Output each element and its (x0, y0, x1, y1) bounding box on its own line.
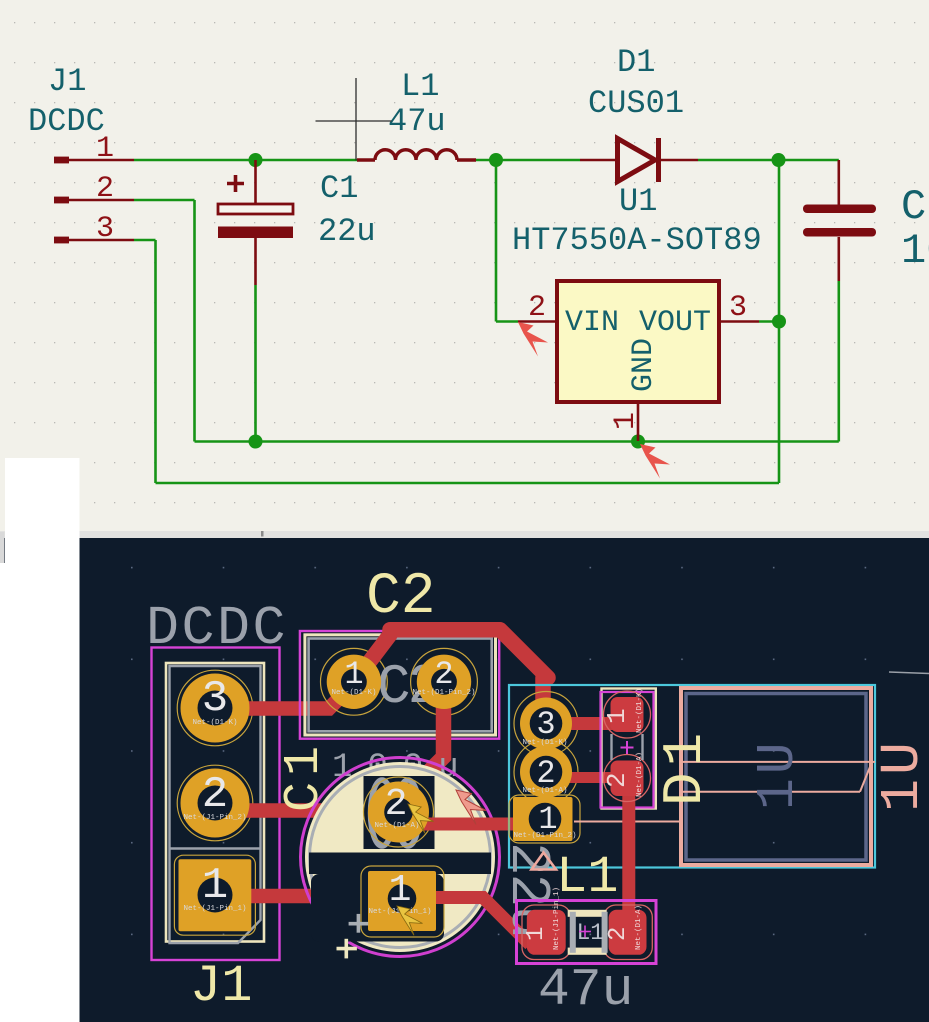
inductor L1 (357, 150, 476, 160)
svg-text:VOUT: VOUT (639, 306, 711, 340)
svg-text:C2: C2 (366, 565, 436, 630)
svg-text:HT7550A-SOT89: HT7550A-SOT89 (512, 222, 762, 259)
svg-text:2: 2 (96, 172, 114, 206)
C2 pad 1 (327, 655, 381, 709)
U1 pin 3 VOUT (720, 291, 759, 325)
U1 body silkscreen rectangle (681, 688, 871, 865)
U1 pad 2 (520, 746, 572, 798)
svg-text:1: 1 (523, 927, 550, 941)
J1 pad 1 (179, 859, 252, 931)
D1 fab polarity marks (612, 734, 643, 760)
svg-text:Net-(D1-A): Net-(D1-A) (522, 787, 567, 795)
junction node at VIN (489, 153, 503, 167)
svg-text:3: 3 (729, 291, 747, 325)
U1 pad clearance outlines (509, 692, 580, 844)
C2 pad clearance circles (321, 648, 478, 715)
svg-text:U1: U1 (619, 183, 657, 220)
U1 pad 1 (513, 797, 577, 841)
C1 silkscreen plus mark (337, 939, 357, 959)
svg-text:47u: 47u (388, 103, 446, 140)
svg-text:D1: D1 (617, 44, 655, 81)
C1 fab plus mark (349, 914, 369, 933)
wire J1 pin3 to VOUT return rail (134, 160, 779, 483)
capacitor C1 (polarized) (218, 160, 293, 285)
svg-text:DCDC: DCDC (28, 103, 105, 140)
footprint C1 fab circle fill (305, 762, 495, 952)
C1 pad clearance outlines (361, 777, 444, 937)
svg-text:1: 1 (202, 861, 228, 911)
svg-text:2: 2 (602, 772, 632, 788)
svg-text:2: 2 (385, 783, 408, 826)
footprint D1 courtyard (601, 692, 654, 808)
D1 pad clearance circles (604, 691, 651, 802)
schematic background (0, 0, 929, 532)
DRC marker arrow at U1 GND junction (640, 444, 670, 479)
D1 pad 1 (602, 688, 644, 733)
trace J1.1 to C1.1 (248, 889, 390, 904)
wire net VIN top rail (134, 160, 839, 322)
DRC marker arrow at U1 pin 2 (518, 322, 548, 357)
trace C2.2 to C1.2 (400, 682, 444, 801)
svg-text:Net-(J1-Pin_1): Net-(J1-Pin_1) (183, 905, 246, 913)
connector J1 pin 2 (54, 197, 134, 204)
L1 body fab drawing (568, 910, 608, 955)
window divider strip (0, 531, 929, 539)
C1 pad 1 (368, 869, 436, 931)
C2 pad 2 (412, 655, 475, 709)
ratsnest stub line (889, 672, 929, 674)
svg-text:2: 2 (202, 770, 228, 820)
svg-text:DCDC: DCDC (146, 597, 288, 660)
svg-text:10: 10 (901, 227, 929, 275)
svg-text:C2: C2 (901, 183, 929, 231)
junction node at C1 bottom (249, 435, 263, 449)
svg-text:Net-(J1-Pin_1): Net-(J1-Pin_1) (553, 887, 561, 950)
svg-text:1: 1 (602, 708, 632, 724)
footprint C2 fab outline (305, 635, 496, 735)
footprint U1 courtyard (509, 685, 875, 868)
D1 pad 2 (602, 752, 644, 797)
svg-text:Net-(D1-K): Net-(D1-K) (636, 688, 644, 733)
J1 pad clearance circles (174, 670, 255, 935)
footprint J1 silk outline with pin1 chamfer (170, 666, 261, 943)
svg-text:Net-(D1-A): Net-(D1-A) (374, 822, 419, 830)
svg-text:Net-(D1-A): Net-(D1-A) (635, 905, 643, 950)
footprint J1 courtyard (152, 648, 280, 961)
svg-text:L1: L1 (577, 920, 605, 946)
svg-text:Net-(D1-K): Net-(D1-K) (522, 739, 567, 747)
svg-text:22u: 22u (318, 213, 376, 250)
J1 pad 2 (181, 769, 250, 838)
svg-text:J1: J1 (190, 957, 252, 1016)
svg-text:Net-(J1-Pin_2): Net-(J1-Pin_2) (183, 814, 246, 822)
svg-text:1: 1 (389, 869, 412, 912)
connector J1 pin 3 (54, 237, 134, 244)
footprint C1 courtyard circle (301, 758, 500, 957)
svg-text:L1: L1 (556, 848, 618, 907)
capacitor C2 (803, 160, 876, 281)
C1 pad2 keepout window (364, 776, 435, 849)
trace J1.2 to C1.2 (246, 803, 380, 818)
svg-text:VIN: VIN (565, 306, 619, 340)
svg-text:3: 3 (96, 212, 114, 246)
svg-text:1U: 1U (871, 738, 929, 812)
footprint C2 silk outline (309, 639, 492, 732)
svg-text:GND: GND (627, 338, 661, 392)
footprint L1 courtyard (517, 901, 657, 964)
svg-text:2: 2 (605, 927, 632, 941)
wire GND bottom rail (195, 281, 839, 442)
cursor arrow at C1 pad1 (yellow) (397, 906, 423, 935)
L1 pad 2 (605, 905, 647, 955)
L1 pad clearance outlines (522, 905, 652, 960)
svg-text:1U: 1U (748, 738, 808, 810)
svg-text:3: 3 (202, 674, 228, 724)
cursor arrow at C1 pad2 (yellow) (408, 804, 434, 833)
footprint D1 fab outline (602, 689, 656, 809)
trace J1.3 to C2.1 (246, 683, 354, 709)
C1 pad 2 (368, 782, 429, 843)
DRC arrow near C1 pad2 (pink) (456, 790, 486, 825)
svg-text:3: 3 (536, 706, 555, 743)
svg-text:2: 2 (434, 656, 453, 693)
PCB background (0, 538, 929, 1022)
svg-text:Net-(D1-K): Net-(D1-K) (331, 689, 376, 697)
svg-text:Net-(D1-K): Net-(D1-K) (192, 719, 237, 727)
trace U1.2 to D1.2 (560, 772, 620, 783)
U1 pin 2 VIN (518, 291, 557, 325)
U1 body fab rectangle (686, 694, 866, 861)
svg-text:Net-(D1-Pin_2): Net-(D1-Pin_2) (412, 689, 475, 697)
svg-text:1: 1 (609, 412, 643, 430)
svg-text:1: 1 (344, 656, 363, 693)
cursor crosshair (316, 78, 392, 161)
junction node at diode cathode (772, 153, 786, 167)
regulator U1 body (557, 281, 719, 402)
trace D1.2 to L1.2 (622, 790, 635, 915)
C1 hidden fab glyph fragments (371, 780, 420, 846)
svg-text:Net-(D1-Pin_2): Net-(D1-Pin_2) (513, 832, 576, 840)
trace C1.1 to L1.1 (420, 898, 530, 945)
J1 pad 3 (181, 674, 250, 743)
L1 pad 1 (523, 887, 566, 955)
junction node at VOUT pin (772, 315, 786, 329)
svg-text:1: 1 (96, 132, 114, 166)
junction node at U1 GND (631, 435, 645, 449)
U1 pad 3 (520, 698, 572, 750)
trace C2.1 to U1.3 (354, 630, 548, 712)
white side panel (0, 458, 80, 1022)
C1 center band window (309, 853, 491, 875)
C1 pad1 keepout window (311, 874, 444, 942)
footprint C1 silk circle (310, 767, 491, 948)
connector J1 pin 1 (54, 157, 134, 164)
D1 courtyard plus mark (621, 741, 634, 754)
diode D1 (580, 138, 698, 182)
trace U1.3 to D1.1 (560, 717, 620, 730)
wire J1 pin2 to GND rail (134, 200, 195, 442)
svg-text:2: 2 (528, 291, 546, 325)
DRC arrow near L1 (pink) (532, 853, 557, 870)
footprint C2 courtyard (300, 631, 499, 739)
junction node at C1 top (249, 153, 263, 167)
U1 pin 1 GND (609, 403, 643, 441)
U1 silkscreen lead lines (574, 762, 875, 822)
svg-text:L1: L1 (401, 68, 439, 105)
svg-text:C1: C1 (320, 170, 358, 207)
J1 pin numbers (96, 132, 114, 246)
footprint J1 fab outline (166, 663, 264, 942)
svg-text:47u: 47u (538, 960, 633, 1020)
svg-text:CUS01: CUS01 (588, 85, 684, 122)
svg-text:D1: D1 (653, 727, 717, 806)
svg-text:J1: J1 (48, 63, 86, 100)
trace C1.2 to U1.1 (420, 818, 518, 831)
